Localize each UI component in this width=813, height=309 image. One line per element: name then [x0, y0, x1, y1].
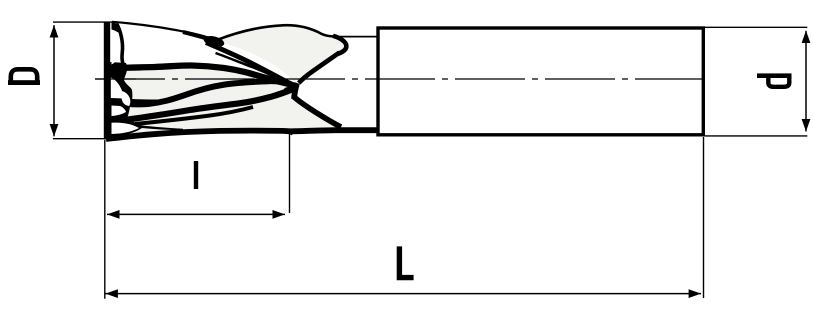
petal lower-right edge [299, 53, 340, 84]
centerline [95, 78, 707, 80]
centerline overlay left [95, 78, 136, 80]
tip diagonal to bottom [294, 97, 341, 127]
L arrow left [105, 289, 118, 298]
end tooth curve [117, 24, 128, 68]
junction blob [203, 34, 226, 49]
D arrow up [50, 25, 59, 38]
wedge tip streak [133, 125, 183, 131]
band end thickeners at tip [286, 83, 295, 86]
cutter body light fill [108, 64, 341, 139]
top silhouette thick wedge near junction [183, 32, 215, 41]
left end black mass [110, 62, 143, 137]
l right extension line [289, 134, 291, 213]
tooth top wedge [112, 22, 122, 35]
label D [8, 69, 40, 85]
flute band alpha root wedge [111, 64, 158, 72]
white bottom wedge [112, 123, 140, 134]
l/L left extension line [104, 140, 106, 299]
d dimension extension bottom [705, 135, 807, 137]
D dimension line [53, 25, 55, 136]
L dimension line [105, 293, 701, 295]
flute sliver line D2 [216, 53, 274, 76]
bottom step notch [285, 131, 295, 136]
petal top edge [217, 25, 335, 40]
petal right edge [333, 36, 346, 54]
petal lower-left edge [206, 43, 297, 87]
d dimension line [805, 31, 807, 132]
d arrow up [802, 31, 811, 44]
D dimension extension top [53, 21, 112, 23]
d arrow down [802, 119, 811, 132]
l dimension line [107, 213, 285, 215]
L arrow right [689, 289, 702, 298]
flute band delta [135, 107, 253, 124]
d dimension extension top [705, 26, 807, 28]
white teardrop gash [112, 33, 120, 65]
D arrow down [50, 124, 59, 137]
l arrow right [273, 210, 286, 219]
flute face petal fill [217, 25, 347, 84]
flute band beta root wedge [111, 98, 162, 106]
D dimension extension bottom [53, 138, 107, 140]
flute band alpha [110, 65, 291, 84]
cutter top silhouette [112, 22, 214, 40]
label d [757, 73, 792, 86]
petal tip vertical [294, 83, 297, 99]
shank body [378, 28, 703, 135]
bottom silhouette [106, 130, 377, 139]
neck top line [333, 36, 379, 38]
white gash 2 [111, 78, 124, 99]
white slot 2b [121, 91, 130, 106]
l arrow left [107, 210, 120, 219]
L right extension line [703, 137, 705, 298]
flute band gamma [111, 89, 293, 122]
label l [194, 161, 198, 189]
left end bar [104, 22, 110, 140]
flute band gamma root wedge [111, 112, 162, 124]
flute band beta [110, 81, 290, 104]
label L [397, 246, 414, 280]
white gash 3 [112, 106, 127, 117]
